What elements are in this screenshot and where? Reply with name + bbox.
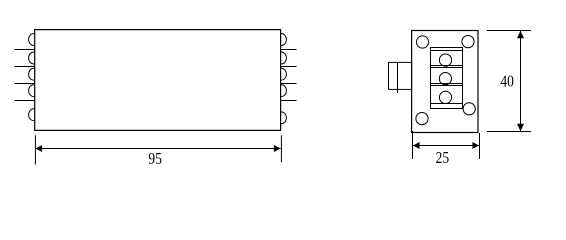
svg-text:40: 40 (500, 73, 514, 90)
svg-text:25: 25 (436, 150, 450, 167)
svg-text:95: 95 (148, 151, 162, 168)
